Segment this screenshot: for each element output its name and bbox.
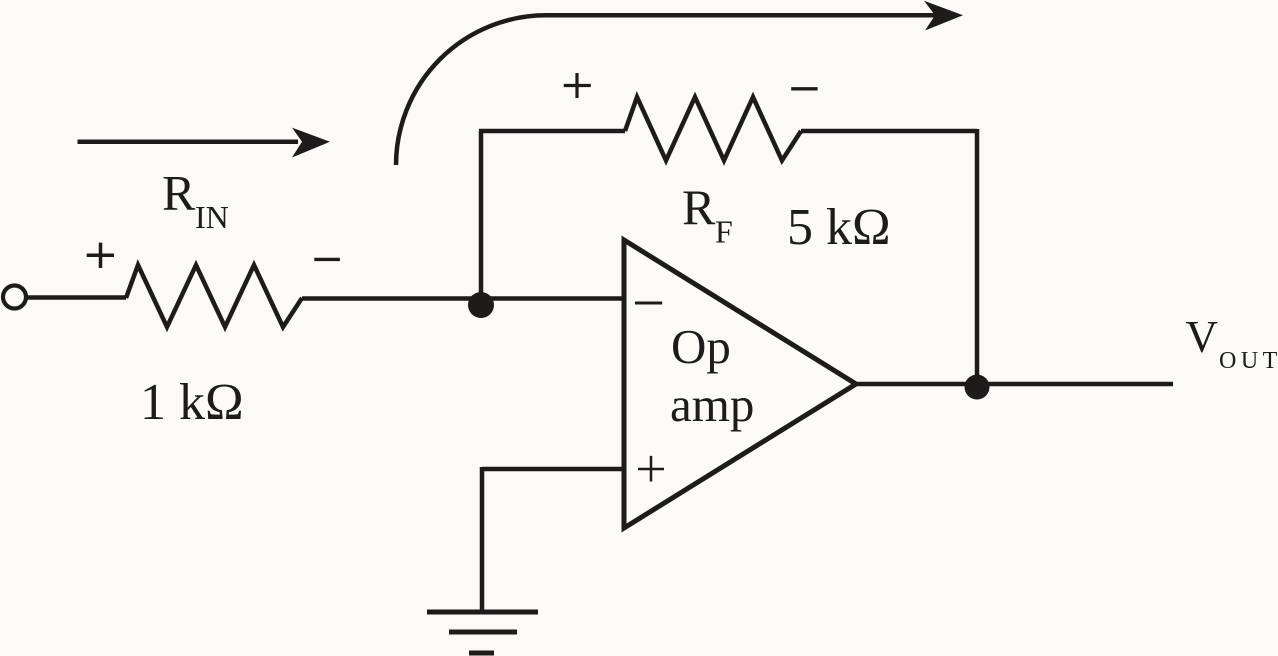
svg-text:amp: amp xyxy=(670,377,754,432)
svg-text:1 kΩ: 1 kΩ xyxy=(140,374,244,431)
wire + input down to ground xyxy=(480,467,485,612)
label + (R_F left polarity) xyxy=(564,73,591,98)
wire op-amp + input xyxy=(482,467,624,472)
wire feedback right vertical xyxy=(975,129,980,386)
svg-text:V: V xyxy=(1186,312,1219,362)
resistor R_F zigzag xyxy=(625,97,801,161)
input terminal circle xyxy=(3,286,26,309)
ground bar 1 xyxy=(427,610,538,615)
feedback current arrow arc xyxy=(396,15,938,165)
label − (R_IN right polarity) xyxy=(314,258,340,261)
svg-text:OUT: OUT xyxy=(1219,348,1278,374)
label − (inverting input pin) xyxy=(635,302,662,305)
node dot A (inverting input) xyxy=(468,292,494,318)
wire input to R_IN xyxy=(26,295,126,300)
current arrow over R_IN shaft xyxy=(78,140,299,145)
label + (R_IN left polarity) xyxy=(87,243,114,268)
wire R_F to right corner xyxy=(801,129,977,134)
svg-text:R: R xyxy=(162,165,196,221)
svg-text:Op: Op xyxy=(671,319,731,374)
ground bar 2 xyxy=(449,630,517,635)
feedback current arrow head xyxy=(924,1,963,31)
resistor R_IN zigzag xyxy=(126,265,302,327)
svg-text:5 kΩ: 5 kΩ xyxy=(787,199,891,256)
wire R_IN to op-amp inverting input xyxy=(302,296,624,301)
node dot B (output) xyxy=(965,375,990,400)
op-amp U1 triangle xyxy=(624,240,856,528)
svg-text:IN: IN xyxy=(195,199,229,235)
wire node up to feedback xyxy=(479,131,484,300)
ground bar 3 xyxy=(469,651,494,656)
svg-text:R: R xyxy=(682,179,716,235)
label + (non-inverting input pin) xyxy=(638,456,664,482)
wire output xyxy=(856,382,1173,387)
label − (R_F right polarity) xyxy=(791,87,817,90)
svg-text:F: F xyxy=(715,214,733,250)
current arrow over R_IN head xyxy=(292,128,330,158)
wire feedback left horizontal xyxy=(479,129,625,134)
